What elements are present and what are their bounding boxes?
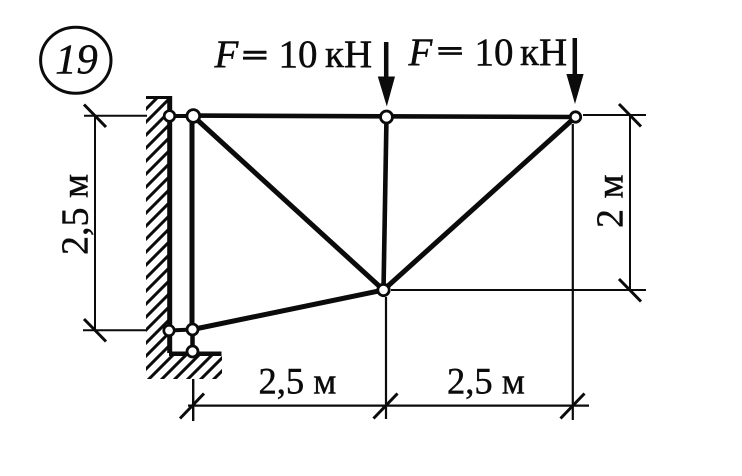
force arrow F2 [566,38,583,104]
truss member: diagonal top-right to centre [384,117,576,290]
truss member: bottom-left pin link [169,330,193,331]
node bottom-left lower [187,346,198,357]
truss member: bottom chord to centre [193,290,384,330]
bottom extension line under top-right node [572,124,574,420]
svg-text:19: 19 [55,37,98,84]
node bottom-left upper [187,324,198,335]
dimension extension line, top-left [84,115,147,117]
node top-middle [381,111,393,123]
wall face edge [167,96,172,353]
dimension extension line, top-right [583,114,646,116]
svg-text:2,5 м: 2,5 м [447,360,525,401]
bottom dimension tick, right [561,394,585,419]
bottom dimension tick, left [180,394,204,419]
support base top edge [169,351,222,356]
dimension extension line, bottom-left [83,329,146,331]
left dimension tick, top [84,105,106,128]
svg-text:2,5 м: 2,5 м [55,174,97,255]
truss member: top chord [193,116,576,117]
node top-right [570,112,580,122]
right dimension tick, bottom [619,279,641,302]
svg-text:2,5 м: 2,5 м [259,360,337,401]
bottom extension line under centre node [385,297,387,419]
left dimension line 2,5 м [94,116,96,331]
node centre [378,284,389,295]
truss member: diagonal top-left to centre [193,116,384,290]
truss member: left vertical [190,116,195,330]
node top-left truss [187,110,200,123]
svg-text:2 м: 2 м [590,174,632,228]
task number circle 19 [41,27,111,93]
force arrow F1 [378,42,395,107]
right dimension line 2 м [629,115,631,290]
pin node top-left wall [164,111,175,122]
truss member: top-left pin link [169,114,193,118]
right dimension tick, top [619,104,641,127]
bottom dimension tick, middle [374,394,398,419]
pin node bottom-left wall [164,325,174,335]
bottom dimension line [188,405,589,407]
svg-text:F10кН: F10кН [408,31,568,74]
wall top cap line [146,96,172,99]
svg-text:F10кН: F10кН [214,33,373,76]
bottom extension line under wall base [192,379,194,421]
wall hatch (left support wall, L-shaped) [0,90,516,385]
left dimension tick, bottom [84,319,106,342]
truss member: middle vertical [384,117,387,290]
dimension extension line, right of centre node [391,289,646,291]
truss member: bottom-left vertical link [190,330,195,352]
